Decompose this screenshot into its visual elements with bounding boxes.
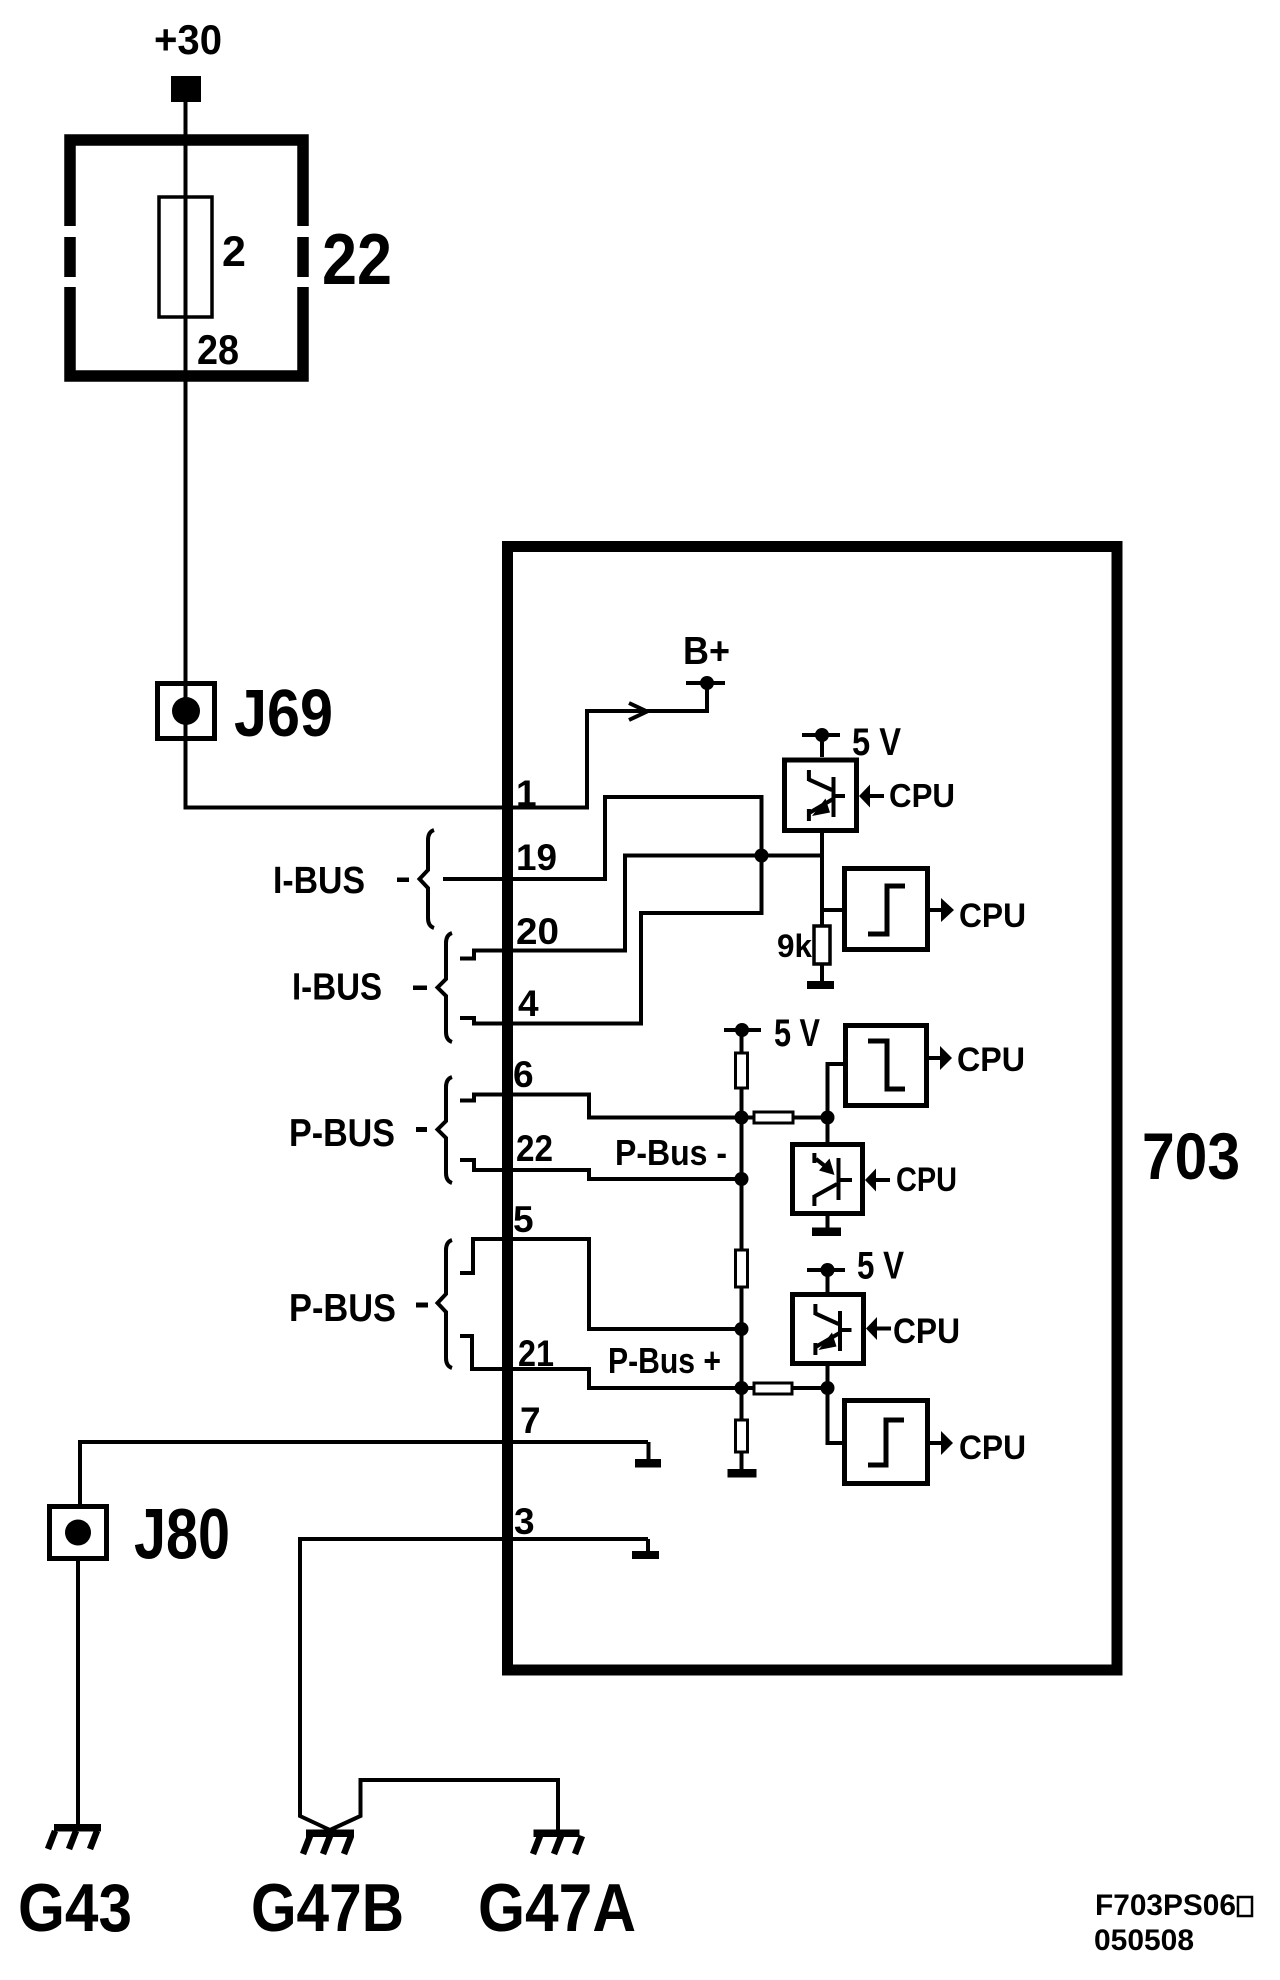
rail segment to R6 [740, 1388, 744, 1420]
wire 5V down P-BUS rail [740, 1030, 744, 1053]
svg-text:J80: J80 [134, 1496, 230, 1575]
dash after P-BUS first [416, 1127, 427, 1132]
resistor R1 [736, 1053, 748, 1088]
termination bar pin 3 [632, 1551, 659, 1559]
comparator A box [845, 869, 928, 950]
fuse element 2 [159, 197, 212, 317]
5V terminal 3 bar [807, 1268, 845, 1272]
ground bar under rail [728, 1469, 757, 1478]
svg-text:P-Bus +: P-Bus + [608, 1340, 721, 1381]
svg-text:19: 19 [516, 837, 557, 878]
terminal +30 square [171, 76, 201, 102]
rail segment R1 to P-Bus- node [740, 1088, 744, 1179]
resistor R3 [736, 1250, 748, 1287]
resistor R5 horizontal [742, 1386, 755, 1390]
wire up to comparator B [828, 1064, 844, 1118]
wire from +30 down through fuse box to J69 and pin 1 of 703 [186, 102, 708, 808]
brace for I-BUS pins 20/4 [438, 933, 453, 1042]
resistor R2 horizontal [742, 1116, 755, 1120]
pin 7 internal termination stub [647, 1442, 651, 1459]
arrow on B+ feed wire [629, 703, 647, 720]
fuse box 22 border [70, 140, 303, 376]
terminal B+ bar [686, 681, 725, 685]
svg-text:5: 5 [513, 1199, 534, 1240]
wire 9k to ground [820, 964, 824, 981]
wire to comparator A input [822, 908, 842, 912]
junction dot comparator B input [821, 1111, 835, 1125]
splice J69 dot [172, 697, 200, 725]
wire pin 19 to internal node [443, 797, 762, 879]
brace for P-BUS pins 5/21 [438, 1240, 453, 1368]
comparator C box [845, 1401, 928, 1484]
ECU box 703 [508, 547, 1118, 1671]
ground bar under 9k [807, 981, 834, 989]
svg-text:P-Bus -: P-Bus - [615, 1132, 727, 1173]
splice J69 box [158, 684, 215, 739]
dash after I-BUS first [397, 878, 409, 883]
CPU arrow out of comparator C [930, 1441, 941, 1445]
5V terminal 2 bar [724, 1028, 761, 1032]
optocoupler U2 symbol [814, 1153, 852, 1206]
svg-text:1: 1 [516, 773, 537, 814]
wire pin 5 with hook to rail [460, 1239, 742, 1329]
svg-text:3: 3 [514, 1501, 535, 1542]
comparator C step symbol [868, 1420, 904, 1465]
ground bar under U2 [812, 1228, 841, 1237]
svg-text:4: 4 [518, 983, 539, 1024]
junction dot pin21/R5 [735, 1381, 749, 1395]
svg-text:P-BUS: P-BUS [289, 1287, 396, 1330]
brace for P-BUS pins 6/22 [438, 1077, 453, 1183]
5V terminal 1 bar [802, 733, 840, 737]
svg-text:+30: +30 [154, 16, 222, 63]
svg-text:G47B: G47B [251, 1870, 404, 1946]
CPU arrow into U1 [859, 785, 870, 808]
missing glyph box [1238, 1897, 1252, 1916]
svg-text:22: 22 [516, 1128, 553, 1169]
wire U2 to ground [826, 1214, 830, 1229]
ground G47B symbol [303, 1830, 354, 1855]
svg-text:CPU: CPU [889, 777, 955, 814]
junction dot pin5 [735, 1322, 749, 1336]
termination bar pin 7 [635, 1459, 661, 1468]
CPU arrow out of comparator A [930, 908, 941, 912]
junction dot pin6/R2 [735, 1111, 749, 1125]
wire G47A link hook [330, 1780, 558, 1830]
comparator B box [846, 1026, 927, 1106]
svg-text:J69: J69 [234, 676, 333, 751]
svg-text:5 V: 5 V [857, 1245, 904, 1288]
junction dot pin22 [735, 1172, 749, 1186]
wire node to optocoupler leg [762, 854, 823, 858]
optocoupler U3 symbol [815, 1304, 851, 1355]
svg-text:F703PS06: F703PS06 [1095, 1889, 1236, 1922]
svg-text:5 V: 5 V [852, 721, 901, 764]
rail segment to R3 [740, 1179, 744, 1250]
optocoupler U2 box [793, 1145, 863, 1214]
resistor 9k [814, 926, 830, 964]
optocoupler U1 symbol [809, 770, 845, 821]
svg-text:I-BUS: I-BUS [292, 967, 382, 1009]
ground G47A symbol [533, 1830, 582, 1855]
svg-text:G47A: G47A [478, 1870, 636, 1946]
svg-text:CPU: CPU [893, 1312, 960, 1351]
wire pin 21 with hook to rail [460, 1336, 742, 1388]
svg-text:G43: G43 [18, 1870, 132, 1946]
resistor R6 [736, 1420, 748, 1452]
svg-text:22: 22 [322, 220, 392, 300]
wire pin 6 with hook to rail [460, 1095, 742, 1118]
wire pin 7 to J80 [80, 1442, 648, 1504]
comparator B step symbol [868, 1041, 905, 1089]
CPU arrow into U3 [866, 1317, 877, 1340]
wire 5V to optocoupler U1 [820, 735, 824, 757]
CPU arrow into U2 [865, 1169, 876, 1192]
optocoupler U3 box [793, 1295, 864, 1364]
svg-text:P-BUS: P-BUS [289, 1112, 395, 1155]
svg-text:CPU: CPU [957, 1041, 1025, 1079]
svg-text:9k: 9k [777, 928, 812, 964]
dash after P-BUS second [416, 1303, 428, 1308]
svg-text:CPU: CPU [959, 897, 1026, 935]
comparator A step symbol [868, 886, 905, 934]
wire R6 to ground [740, 1452, 744, 1469]
svg-text:I-BUS: I-BUS [273, 860, 365, 902]
splice J80 dot [65, 1520, 91, 1546]
ground G43 symbol [48, 1824, 101, 1849]
svg-text:6: 6 [513, 1054, 534, 1095]
svg-text:050508: 050508 [1094, 1924, 1194, 1957]
wire pin 3 to G47B [300, 1539, 648, 1830]
svg-text:7: 7 [520, 1400, 541, 1441]
optocoupler U1 box [785, 760, 857, 831]
rail segment R3 to P-Bus+ node [740, 1287, 744, 1388]
terminal B+ dot [700, 676, 714, 690]
wire pin 22 with hook to rail [460, 1160, 742, 1179]
CPU arrow out of comparator B [929, 1056, 940, 1060]
dash after I-BUS second [413, 986, 427, 991]
wire down to optocoupler U2 [826, 1118, 830, 1145]
wire pin 4 with hook to internal node [460, 856, 762, 1024]
svg-text:CPU: CPU [896, 1161, 957, 1199]
junction dot I-BUS node [755, 849, 769, 863]
wire U3 down to node [826, 1364, 830, 1389]
svg-text:20: 20 [516, 911, 559, 952]
wire node down to comparator C [828, 1388, 843, 1443]
svg-text:CPU: CPU [959, 1429, 1026, 1467]
svg-text:2: 2 [222, 228, 246, 276]
svg-text:703: 703 [1142, 1119, 1240, 1193]
5V terminal 2 dot [735, 1023, 749, 1037]
svg-text:5 V: 5 V [774, 1012, 820, 1055]
wire 5V to optocoupler U3 [826, 1270, 830, 1294]
5V terminal 3 dot [821, 1263, 835, 1277]
svg-text:28: 28 [197, 326, 239, 373]
brace for I-BUS pin 19 [420, 830, 435, 928]
wire pin 20 with hook to internal node [460, 856, 762, 959]
svg-text:B+: B+ [683, 630, 730, 673]
junction dot comparator C input [821, 1381, 835, 1395]
wire U1 emitter down to comparator/9k [820, 831, 824, 927]
pin 3 internal termination stub [646, 1539, 650, 1551]
wire J80 to ground G43 [76, 1559, 80, 1824]
5V terminal 1 dot [815, 728, 829, 742]
splice J80 box [50, 1507, 107, 1559]
